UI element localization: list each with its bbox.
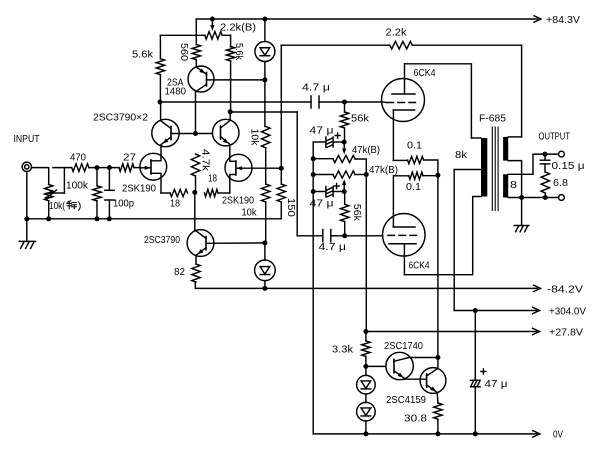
resistor 4.7k [191,154,199,176]
capacitor C5 0.15u [544,154,546,160]
node 0V 30.8 [435,431,440,436]
node bus 100p [107,216,112,221]
svg-text:5.6k: 5.6k [233,43,244,61]
capacitor C1 4.7u upper [310,96,312,108]
svg-text:47 μ: 47 μ [310,199,334,210]
wire riser rail-to-35 [195,19,197,35]
transformer secondary winding upper [503,137,508,161]
wire sources y193 left [161,192,170,194]
svg-text:4.7 μ: 4.7 μ [302,83,330,94]
resistor 56k upper [340,112,348,128]
capacitor 100p [108,168,110,191]
svg-text:10k: 10k [249,128,260,146]
svg-text:2SC3790×2: 2SC3790×2 [93,113,148,124]
svg-text:2SC4159: 2SC4159 [386,395,426,406]
svg-text:47k(B): 47k(B) [352,145,380,156]
wire 5.6k-left top riser [159,35,161,58]
wire x366 riser [355,159,366,332]
resistor 100k [93,186,101,201]
ground input [19,240,35,242]
resistor 150 [277,184,285,202]
svg-text:56k: 56k [351,114,370,125]
wire anode2 [404,197,481,275]
wire y45 rail left [281,44,390,46]
svg-text:0.15 μ: 0.15 μ [552,161,585,172]
transformer secondary winding lower [503,174,508,197]
node input-100k [95,165,100,170]
arrow +304V [533,307,540,313]
arrow +27.8V [533,328,540,334]
tube V1 6CK4 upper [382,79,425,122]
wire gate2 [252,167,281,169]
node bus pot [46,216,51,221]
transistor Q7 2SC1740 [386,352,413,379]
node bases-2SA1480 [193,131,198,136]
svg-text:8: 8 [510,180,518,191]
wire y112 [230,111,297,113]
resistor 0.1 lower [394,175,409,177]
diode D2 [264,243,266,260]
svg-text:+27.8V: +27.8V [549,328,583,339]
transistor Q1 2SC3790 left [152,119,179,146]
wire ground bus [27,218,281,220]
resistor 470 [72,164,89,172]
wire bases y133.5 [171,133,212,135]
svg-text:OUTPUT: OUTPUT [539,132,571,143]
terminal output hot [559,151,565,157]
wire +84.3V rail [196,18,537,20]
wire +304V rail [454,310,536,312]
svg-text:6CK4: 6CK4 [409,261,430,272]
wire centertap riser [453,170,455,311]
node 0.1 mid [435,173,440,178]
svg-text:2SC3790: 2SC3790 [144,235,180,246]
node rail-wiper [210,17,215,22]
node diode2 bottom [262,286,267,291]
wire -84.2V rail [195,282,537,288]
potentiometer VR3 47k(B) upper [313,158,333,160]
svg-text:5.6k: 5.6k [132,50,154,61]
svg-text:+84.3V: +84.3V [546,15,580,26]
wire y45 rail right [412,44,521,46]
svg-text:2SK190: 2SK190 [122,184,156,195]
svg-text:0V: 0V [553,430,563,441]
node +304 junction [473,308,478,313]
svg-text:47 μ: 47 μ [485,379,508,390]
jfet Q4 2SK190 right [225,154,252,181]
wire +304 filter drop [474,311,476,381]
resistor 56k lower [341,204,349,221]
arrow +84.3V [534,16,541,22]
node bus 100k [95,216,100,221]
resistor 18 left [170,189,188,196]
wire input signal [53,167,72,169]
transistor Q8 2SC4159 [420,368,446,394]
node servo mid [363,364,368,369]
wire secondary-top riser [521,45,523,137]
svg-text:470: 470 [70,153,86,164]
svg-text:6.8: 6.8 [553,178,568,189]
svg-text:2.2k(B): 2.2k(B) [220,23,256,34]
resistor 3.3k [362,341,370,357]
svg-text:INPUT: INPUT [14,134,40,145]
svg-text:): ) [78,201,82,212]
tube V2 6CK4 lower [383,214,426,257]
svg-text:+304.0V: +304.0V [549,307,586,318]
svg-text:27: 27 [123,153,137,164]
svg-text:2.2k: 2.2k [386,28,408,39]
capacitor C6 47u right [471,379,481,381]
node input-100p [107,165,112,170]
node rail-pot1 [311,156,316,161]
svg-text:8k: 8k [455,150,468,161]
node pot2-x366 [364,172,369,177]
resistor 5.6k left [156,59,164,75]
wire grid1 right [319,101,382,103]
resistor 30.8 [434,403,442,419]
resistor 10k lower [262,184,270,202]
node grid1-56k [342,100,347,105]
wire pot-net left rail [312,142,314,434]
svg-text:47 μ: 47 μ [310,126,334,137]
resistor 5.6k right [226,47,234,62]
transformer core [491,127,493,211]
node tail [192,190,197,195]
svg-text:18: 18 [208,174,217,185]
transformer T1 F-685 primary winding [481,138,487,197]
wire y35 horizontal [160,34,204,36]
svg-text:2SK190: 2SK190 [222,196,254,207]
wire Q8 base [405,378,427,380]
node rail-diode [262,17,267,22]
svg-text:2SC1740: 2SC1740 [384,341,423,352]
potentiometer VR1 10k(特) [45,184,53,200]
diode D1 [264,19,266,42]
node grid1-5.6k [158,100,163,105]
svg-text:18: 18 [170,199,180,210]
wire grid2 horiz [297,235,323,237]
node sec common [519,195,524,200]
diode D4 [357,402,376,421]
svg-text:4.7 μ: 4.7 μ [319,242,347,253]
svg-text:1480: 1480 [165,87,187,98]
svg-text:6CK4: 6CK4 [414,68,436,79]
wire grid2 to tube [336,235,383,237]
ground output [514,225,529,227]
resistor 10k upper [262,126,270,147]
svg-text:30.8: 30.8 [404,414,428,425]
node Q2 collector [228,109,233,114]
node 0V diode [363,431,368,436]
node zobel bottom [543,195,548,200]
wire 47u to 0V [474,387,476,434]
resistor 2.2k [390,41,413,49]
node wiper2 [342,189,347,194]
capacitor C2 4.7u lower [322,230,324,242]
svg-text:4.7k: 4.7k [200,149,211,172]
wire jack down [26,172,28,242]
wire +27.8V rail [366,331,537,333]
wire grid1 left [160,101,311,103]
node grid2-56k [342,233,347,238]
svg-text:10k(: 10k( [49,201,66,212]
node bus jack [24,216,29,221]
wire center tap [454,169,481,171]
node rail-pot2 [311,172,316,177]
node servo top [363,329,368,334]
svg-text:0.1: 0.1 [406,182,421,193]
potentiometer VR2 2.2k(B) [205,32,222,40]
resistor 560 [192,45,200,60]
resistor 18 right [205,189,219,196]
connector J1 input jack [22,162,31,171]
wire sec to ground [521,198,523,226]
resistor 0.1 upper [393,159,407,161]
node 2SA base [262,77,267,82]
wire 5.6k-right riser [230,35,232,47]
node CCS base [262,240,267,245]
diode D3 [365,366,367,375]
resistor 27 [119,164,134,172]
node servo collectors [435,355,440,360]
svg-text:100p: 100p [113,199,134,210]
wire 0V rail [313,433,536,435]
transistor Q2 2SC3790 right [212,119,239,146]
svg-text:100k: 100k [66,181,89,192]
svg-text:F-685: F-685 [479,114,506,125]
capacitor C4 47u lower [313,191,326,193]
svg-text:56k: 56k [351,204,362,222]
label + right [481,371,486,373]
capacitor C3 47u upper [313,141,326,143]
node zobel top [543,152,548,157]
svg-text:150: 150 [285,198,296,217]
transistor Q6 2SC3790 CCS [187,230,214,257]
node gate2 [279,166,284,171]
svg-text:10k: 10k [242,208,258,219]
wire x297 riser [296,112,298,236]
svg-text:560: 560 [178,43,189,61]
wire sources y193 right [218,192,230,194]
node 0V 47u [473,431,478,436]
jfet Q3 2SK190 left [140,153,167,180]
arrow 0V [533,431,540,437]
node wiper1 [342,140,347,145]
wire tail to CCS [194,192,196,230]
terminal output common [559,195,565,201]
wire servo base [366,365,386,367]
wire CCS base [206,242,265,244]
arrow -84.2V [534,285,541,291]
wire x438 sense riser [437,175,439,357]
svg-text:47k(B): 47k(B) [369,165,398,176]
resistor 6.8 [541,172,549,193]
potentiometer VR4 47k(B) lower [313,174,333,176]
wire pot wiper to 470 [54,192,64,194]
svg-text:3.3k: 3.3k [332,345,354,356]
resistor 82 [192,264,200,282]
wire 2SA1480 base [207,79,265,81]
wire input jack to pot [32,168,49,185]
wire anode1 [405,64,472,138]
svg-text:82: 82 [174,267,185,278]
node rail-cap2 [311,189,316,194]
label + upper [335,135,340,137]
wire NFB riser x281 [280,45,282,168]
svg-text:0.1: 0.1 [407,141,422,152]
transistor Q5 2SA1480 [188,66,214,92]
label + lower [334,185,339,187]
svg-text:-84.2V: -84.2V [547,285,583,296]
